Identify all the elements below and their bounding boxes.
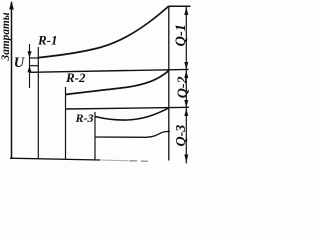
curve R-1 [38,6,168,57]
svg-text:R-1: R-1 [37,33,58,48]
y-axis [11,2,13,159]
svg-text:Затраты: Затраты [0,12,12,61]
Q-3 bottom arrowhead (down) [184,155,188,163]
inner right vertical line [168,6,170,160]
Q-1 bottom arrowhead (down) [184,62,188,70]
svg-text:Q-1: Q-1 [173,24,189,47]
level line from R-2 base to Q-2/Q-3 boundary [66,107,190,109]
curve R-3 [95,108,169,120]
svg-text:U: U [14,55,26,71]
U upper arrowhead (points down, tip at R-1 start level) [27,51,31,58]
dimension line U [29,44,31,88]
svg-text:Q-2: Q-2 [176,76,191,98]
Q-3 top arrowhead (up) [184,108,188,116]
svg-text:R-3: R-3 [75,111,94,125]
U lower extension line [29,65,38,67]
vertical boundary line of R-1 [37,47,39,159]
x-axis faint continuation [100,159,130,162]
x-axis (bottom line) [10,158,100,160]
Q-2 top arrowhead (up) [184,70,188,78]
vertical boundary line of R-2 [65,87,67,159]
outer dimension line [185,7,187,164]
vertical boundary line of R-3 [94,112,96,160]
Q-1 top arrowhead (up) [184,7,188,15]
U lower arrowhead (points up) [27,66,31,73]
lower level line from R-3 base [95,131,170,137]
U upper extension line [29,57,38,59]
Q-2 bottom arrowhead (down) [184,100,188,108]
svg-text:Q-3: Q-3 [174,125,189,147]
R-1 top plateau line [169,5,191,7]
y-axis arrowhead [9,1,14,10]
level line from U to Q-1/Q-2 boundary [30,69,189,72]
curve R-2 [66,70,169,94]
